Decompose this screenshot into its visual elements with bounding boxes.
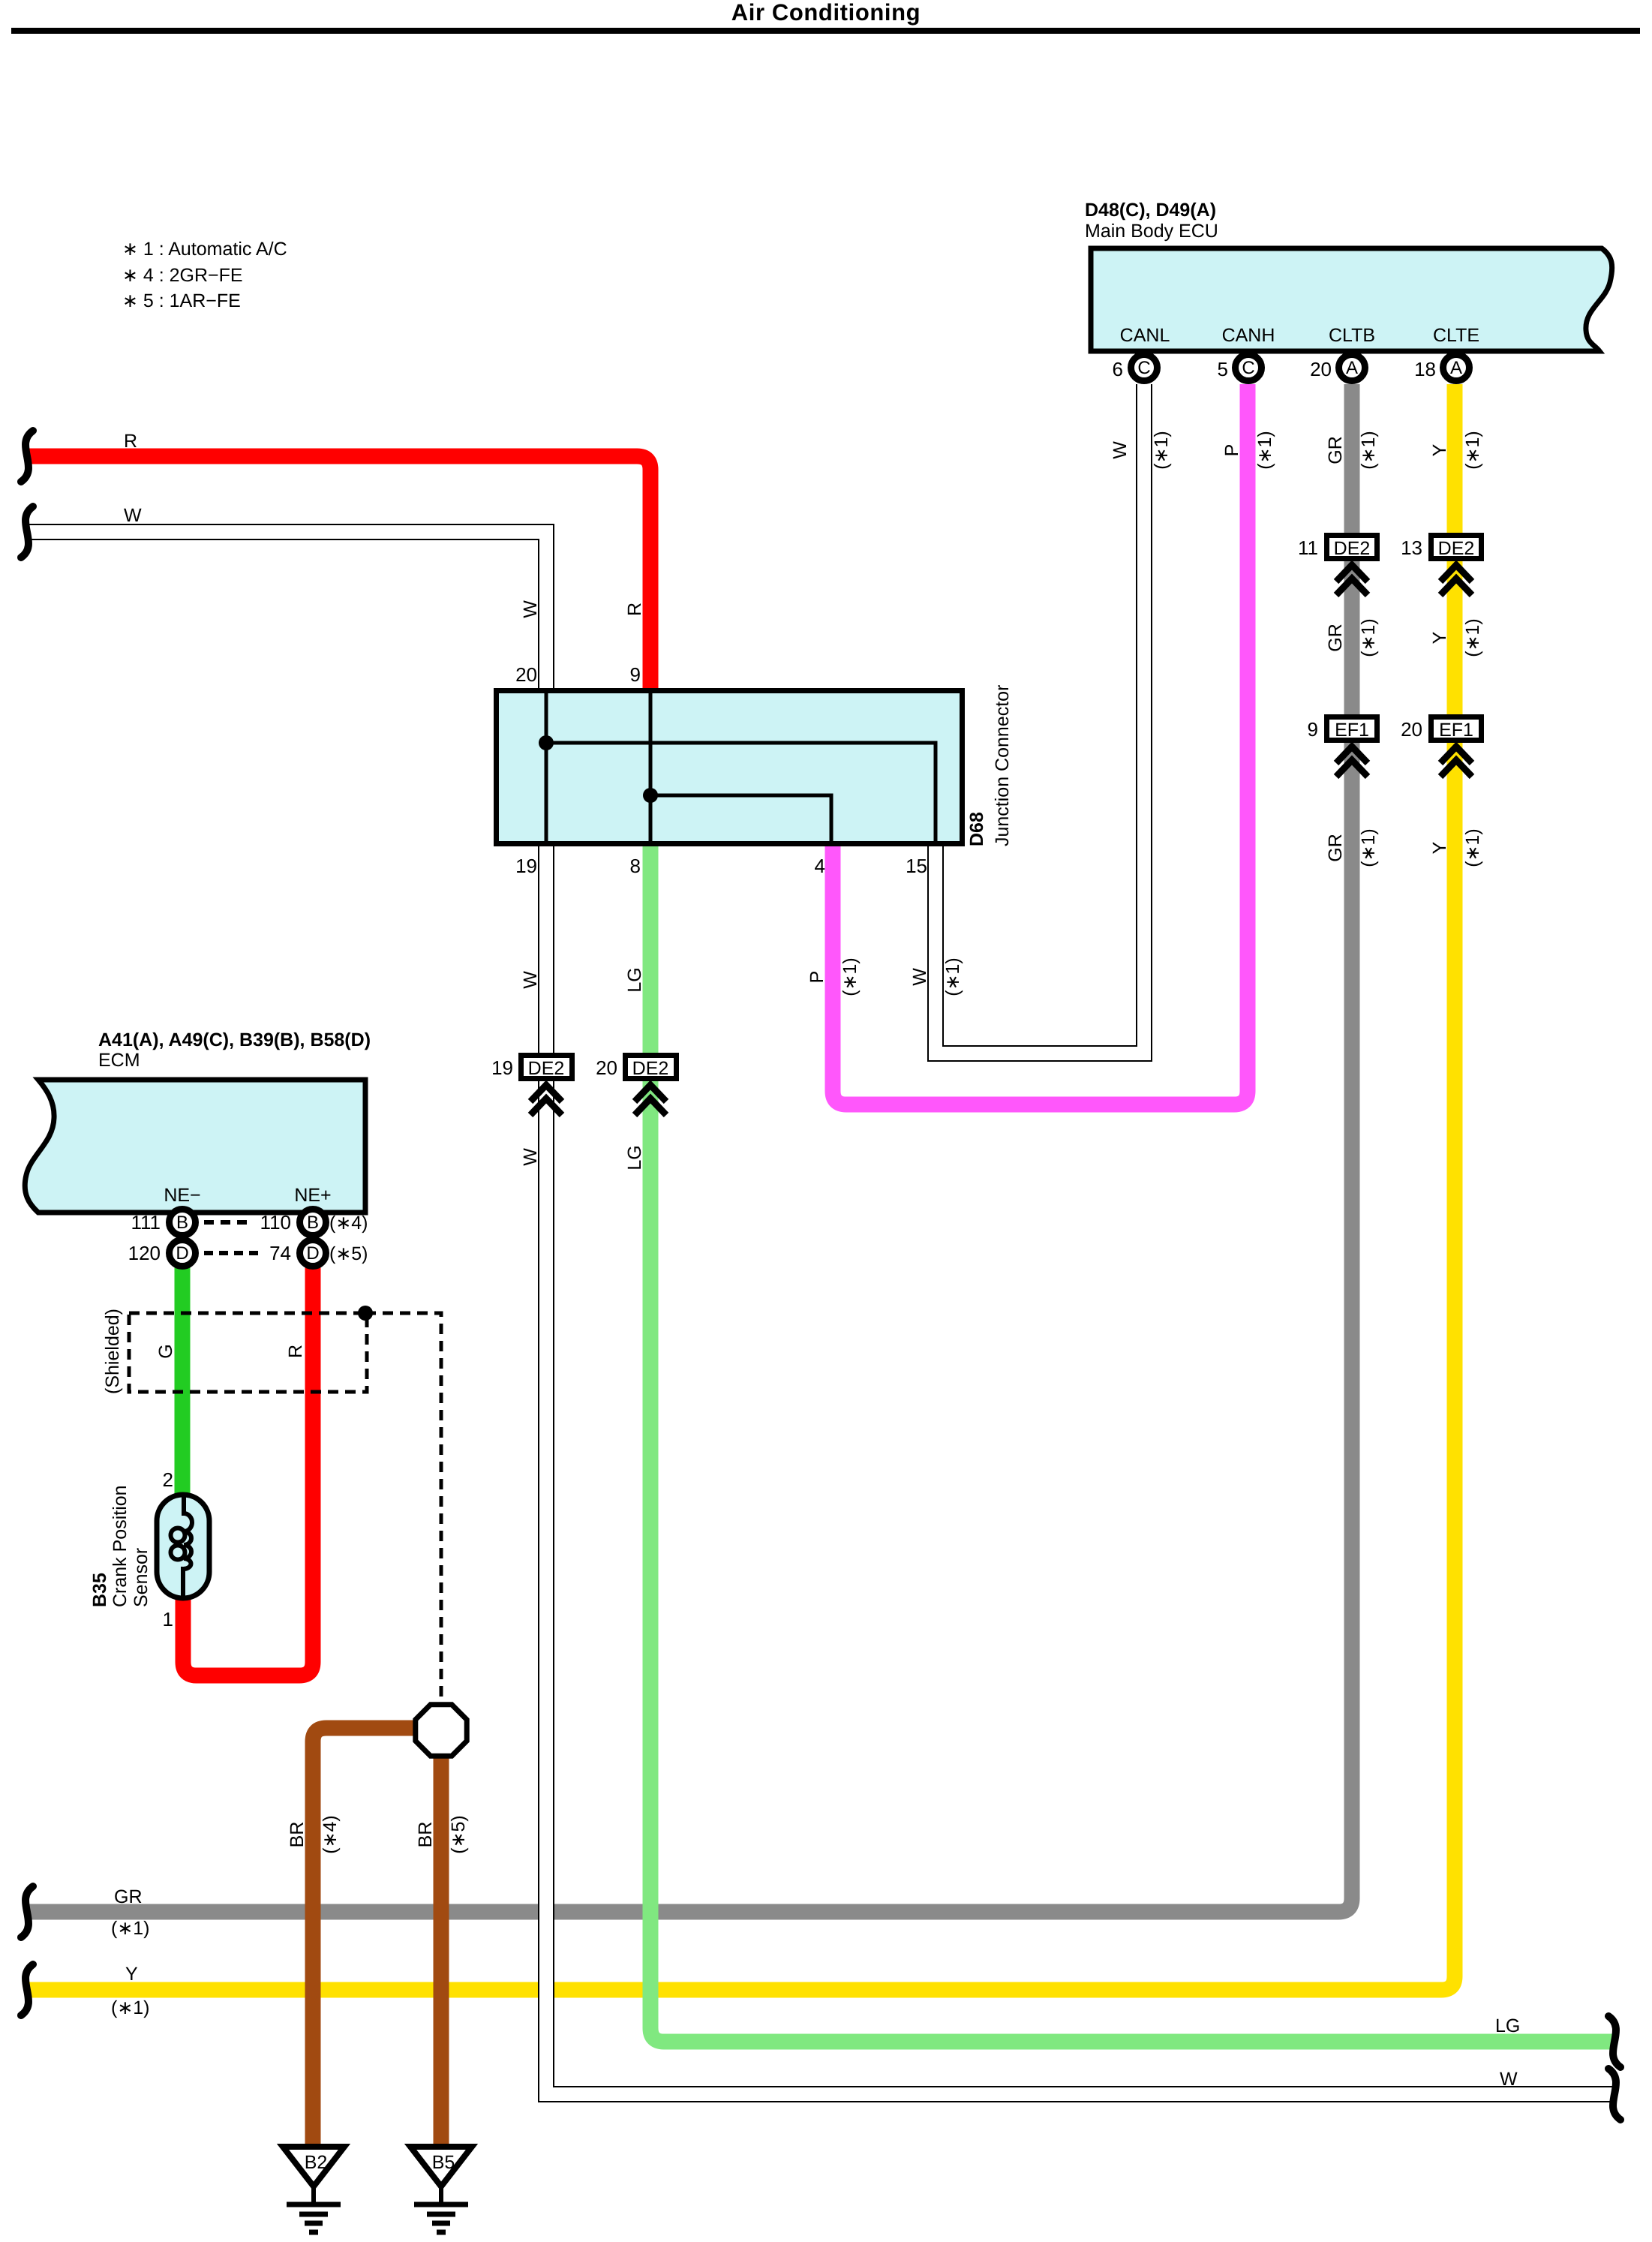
connector 20 EF1 [1431, 717, 1482, 741]
break symbol GR wire [21, 1886, 33, 1937]
svg-text:DE2: DE2 [1334, 538, 1371, 559]
svg-text:A: A [1450, 358, 1462, 378]
svg-text:Main Body ECU: Main Body ECU [1085, 221, 1218, 242]
svg-text:∗ 5 : 1AR−FE: ∗ 5 : 1AR−FE [122, 290, 241, 311]
shield drain dashed wire [365, 1313, 441, 1700]
svg-text:9: 9 [630, 663, 641, 686]
svg-text:DE2: DE2 [1438, 538, 1475, 559]
wire LG from junction pin 8 down and right to break [650, 846, 1613, 2042]
svg-text:W: W [1110, 441, 1131, 459]
wire P from junction pin 4 to CANH [833, 384, 1248, 1104]
svg-text:B2: B2 [305, 2152, 328, 2173]
svg-text:LG: LG [624, 1145, 645, 1170]
wire G from ECM NE- pin 120 to crank sensor pin 2 [175, 1267, 191, 1495]
Main Body ECU box [1091, 248, 1612, 351]
svg-text:NE+: NE+ [294, 1185, 331, 1206]
svg-text:GR: GR [114, 1886, 143, 1907]
svg-text:W: W [520, 971, 541, 989]
svg-text:B: B [176, 1213, 188, 1233]
connector 9 EF1 [1327, 717, 1377, 741]
junction internal branch to pin4 [650, 795, 831, 844]
svg-text:CLTB: CLTB [1329, 325, 1375, 346]
svg-text:(∗1): (∗1) [111, 1997, 150, 2018]
svg-text:19: 19 [515, 855, 537, 877]
svg-text:(∗5): (∗5) [448, 1815, 469, 1854]
chevron below 19 DE2 [530, 1085, 562, 1101]
break symbol W wire right [1608, 2069, 1620, 2120]
svg-text:CANH: CANH [1222, 325, 1275, 346]
svg-text:W: W [1500, 2069, 1518, 2090]
ECM box [25, 1080, 365, 1213]
svg-text:(∗1): (∗1) [1462, 828, 1483, 867]
svg-text:11: 11 [1298, 536, 1318, 559]
svg-text:Y: Y [1429, 443, 1450, 456]
svg-text:DE2: DE2 [528, 1058, 565, 1079]
svg-text:EF1: EF1 [1335, 720, 1369, 741]
svg-text:D: D [306, 1243, 319, 1264]
svg-text:GR: GR [1325, 436, 1346, 464]
break symbol LG wire [1608, 2016, 1620, 2067]
coil inside sensor [183, 1495, 192, 1598]
svg-text:B: B [307, 1213, 319, 1233]
svg-text:DE2: DE2 [632, 1058, 669, 1079]
svg-text:B5: B5 [432, 2152, 455, 2173]
svg-text:13: 13 [1401, 536, 1422, 559]
svg-text:CLTE: CLTE [1433, 325, 1479, 346]
svg-text:D48(C), D49(A): D48(C), D49(A) [1085, 200, 1216, 221]
svg-text:18: 18 [1414, 358, 1436, 380]
junction connector D68 box [497, 691, 963, 844]
svg-text:2: 2 [163, 1468, 173, 1491]
svg-text:∗ 1 : Automatic A/C: ∗ 1 : Automatic A/C [122, 239, 287, 260]
shield dashed box [129, 1313, 367, 1392]
wire Y horizontal from left break to CLTE column [27, 384, 1455, 1990]
svg-text:20: 20 [1401, 718, 1422, 741]
svg-text:Crank Position: Crank Position [110, 1485, 131, 1607]
svg-text:LG: LG [624, 967, 645, 992]
svg-text:1: 1 [163, 1608, 173, 1630]
svg-text:EF1: EF1 [1439, 720, 1473, 741]
junction internal wire pin9-pin8 [649, 690, 653, 844]
svg-text:W: W [909, 968, 930, 986]
svg-text:(∗1): (∗1) [840, 957, 861, 996]
svg-text:D68: D68 [966, 812, 987, 846]
svg-text:∗ 4 : 2GR−FE: ∗ 4 : 2GR−FE [122, 265, 243, 286]
svg-text:G: G [155, 1344, 176, 1358]
svg-text:CANL: CANL [1120, 325, 1170, 346]
crank position sensor B35 capsule [157, 1495, 209, 1598]
break symbol R wire [21, 431, 33, 482]
svg-text:C: C [1137, 358, 1150, 378]
chevron below 20 EF1 [1440, 747, 1472, 763]
svg-text:Y: Y [1429, 631, 1450, 644]
svg-text:74: 74 [269, 1242, 291, 1264]
wire W from junction pin 15 to CANL [936, 384, 1144, 1053]
junction node dot 1 [539, 735, 554, 750]
dashes between D pins [204, 1251, 261, 1255]
svg-text:Y: Y [125, 1964, 138, 1985]
svg-text:A41(A), A49(C), B39(B), B58(D): A41(A), A49(C), B39(B), B58(D) [98, 1029, 371, 1050]
svg-text:R: R [285, 1345, 306, 1358]
junction node dot 2 [643, 788, 658, 803]
svg-text:C: C [1242, 358, 1254, 378]
wire W from junction pin 19 down and right to break [546, 846, 1613, 2094]
svg-text:R: R [124, 431, 137, 452]
chevron below 9 EF1 [1336, 747, 1368, 763]
svg-text:GR: GR [1325, 834, 1346, 862]
svg-text:(∗1): (∗1) [1462, 431, 1483, 470]
svg-text:20: 20 [596, 1056, 617, 1079]
svg-text:(∗1): (∗1) [1151, 431, 1172, 470]
svg-text:5: 5 [1218, 358, 1228, 380]
svg-text:4: 4 [815, 855, 825, 877]
svg-text:9: 9 [1308, 718, 1318, 741]
svg-text:20: 20 [1310, 358, 1332, 380]
svg-text:BR: BR [415, 1822, 436, 1848]
svg-text:Junction Connector: Junction Connector [992, 685, 1013, 846]
svg-text:W: W [520, 1148, 541, 1166]
svg-text:ECM: ECM [98, 1050, 140, 1071]
junction internal branch to pin15 [546, 743, 936, 844]
svg-text:120: 120 [128, 1242, 161, 1264]
svg-text:D: D [176, 1243, 188, 1264]
svg-text:6: 6 [1113, 358, 1123, 380]
svg-text:P: P [806, 971, 828, 984]
svg-text:NE−: NE− [164, 1185, 200, 1206]
svg-text:Air Conditioning: Air Conditioning [731, 0, 921, 26]
svg-text:LG: LG [1495, 2015, 1520, 2036]
junction dot on shield [358, 1306, 373, 1321]
svg-text:(∗1): (∗1) [1358, 431, 1379, 470]
svg-text:(∗1): (∗1) [1358, 618, 1379, 657]
svg-text:(∗1): (∗1) [1358, 828, 1379, 867]
svg-text:B35: B35 [89, 1573, 110, 1607]
svg-text:(∗1): (∗1) [1254, 431, 1275, 470]
connector 11 DE2 [1327, 536, 1377, 559]
connector 20 DE2 [626, 1056, 677, 1079]
svg-text:BR: BR [287, 1822, 308, 1848]
svg-text:8: 8 [630, 855, 641, 877]
svg-text:15: 15 [906, 855, 927, 877]
svg-text:Y: Y [1429, 841, 1450, 854]
svg-text:P: P [1221, 444, 1242, 457]
svg-text:20: 20 [515, 663, 537, 686]
shield octagon connector [416, 1705, 467, 1756]
wire W from left break to junction pin 20 [27, 532, 546, 688]
break symbol W wire [21, 506, 33, 557]
connector 19 DE2 [521, 1056, 572, 1079]
header rule [11, 28, 1640, 34]
wire BR from octagon to ground B2 [313, 1728, 417, 2144]
svg-text:(∗4): (∗4) [320, 1815, 341, 1854]
svg-text:A: A [1346, 358, 1358, 378]
break symbol Y wire [21, 1964, 33, 2015]
chevron below 20 DE2 [635, 1085, 666, 1101]
chevron below 13 DE2 [1440, 565, 1472, 582]
chevron below 11 DE2 [1336, 565, 1368, 582]
svg-text:(∗5): (∗5) [329, 1243, 368, 1264]
svg-text:GR: GR [1325, 624, 1346, 652]
svg-text:(∗1): (∗1) [942, 957, 963, 996]
connector 13 DE2 [1431, 536, 1482, 559]
wire R from left break to junction pin 9 [27, 456, 650, 688]
ground B5 [410, 2147, 472, 2186]
svg-text:19: 19 [491, 1056, 513, 1079]
svg-text:(Shielded): (Shielded) [102, 1309, 123, 1394]
svg-text:W: W [520, 600, 541, 618]
svg-text:Sensor: Sensor [131, 1548, 152, 1607]
svg-text:W: W [124, 505, 142, 526]
wire R from ECM NE+ pin 74 to crank sensor pin 1 [183, 1267, 313, 1675]
ground B2 [283, 2147, 344, 2186]
dashes between B pins [204, 1220, 248, 1225]
wire GR horizontal from left break to CLTB column [27, 384, 1352, 1912]
svg-text:111: 111 [131, 1211, 161, 1234]
svg-text:110: 110 [260, 1211, 291, 1234]
svg-text:(∗1): (∗1) [111, 1918, 150, 1939]
junction internal wire pin20-pin19 [545, 690, 548, 844]
svg-text:R: R [624, 603, 645, 616]
svg-text:(∗4): (∗4) [329, 1213, 368, 1234]
wire BR from octagon to ground B5 [434, 1754, 449, 2144]
svg-text:(∗1): (∗1) [1462, 618, 1483, 657]
